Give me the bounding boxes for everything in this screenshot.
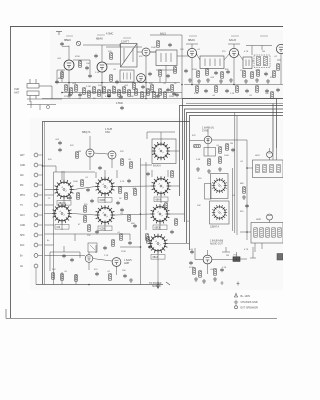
svg-text:68K: 68K bbox=[58, 78, 62, 80]
resistor R47 bbox=[243, 187, 246, 193]
resistor R13 bbox=[141, 92, 144, 98]
bus line 3 nested bbox=[185, 109, 284, 222]
wire grid cap V1 bbox=[62, 46, 69, 99]
wire V3 bbox=[137, 52, 156, 98]
ground G2 bbox=[197, 79, 201, 83]
resistor R28 bbox=[76, 152, 79, 158]
AGC vertical wire bbox=[150, 35, 182, 99]
capacitor C45 bbox=[62, 254, 66, 258]
svg-text:AC: AC bbox=[20, 265, 24, 268]
power arrow bbox=[157, 281, 171, 289]
sound IF box bbox=[120, 70, 134, 82]
resistor R35 bbox=[128, 215, 131, 221]
resistor R37 bbox=[146, 234, 149, 240]
svg-text:6BA6: 6BA6 bbox=[188, 38, 195, 42]
tube socket S6 bbox=[151, 176, 171, 196]
resistor R27 bbox=[256, 86, 259, 92]
resistor R4 bbox=[93, 87, 96, 93]
socket S4 label box bbox=[98, 226, 112, 231]
svg-text:CHASSIS GND: CHASSIS GND bbox=[241, 301, 258, 304]
ground G9 bbox=[129, 278, 133, 282]
hatched coil D2d bbox=[272, 228, 275, 237]
wire V7 cathode bbox=[277, 54, 281, 85]
capacitor C50 bbox=[85, 66, 89, 70]
resistor R72 bbox=[157, 41, 160, 47]
deflection block 1 bbox=[253, 160, 284, 178]
resistor R52 bbox=[70, 88, 73, 94]
resistor R19 bbox=[221, 72, 224, 78]
resistor R38 bbox=[52, 273, 55, 279]
bus line right drop A bbox=[272, 104, 274, 153]
wire into block1 bbox=[247, 148, 277, 168]
wire after volume bbox=[237, 252, 248, 259]
IF transformer T3 bbox=[200, 56, 224, 69]
svg-text:100K: 100K bbox=[73, 181, 78, 183]
svg-text:HOR: HOR bbox=[255, 155, 260, 157]
resistor R17 bbox=[197, 71, 200, 77]
border frame bottom bbox=[6, 309, 277, 319]
capacitor C16 bbox=[58, 148, 62, 152]
capacitor C39 bbox=[90, 199, 94, 203]
svg-text:22K: 22K bbox=[52, 269, 56, 271]
svg-text:FLD: FLD bbox=[20, 245, 25, 247]
terminal circle 1 bbox=[34, 153, 42, 157]
wire antenna to mixer bbox=[48, 86, 62, 99]
wire right column A bbox=[232, 168, 234, 231]
svg-text:AMP: AMP bbox=[124, 262, 130, 265]
svg-text:VERT: VERT bbox=[256, 219, 262, 221]
resistor R74 bbox=[271, 92, 274, 98]
small mark below right bbox=[221, 281, 240, 286]
resistor R73 bbox=[277, 64, 280, 70]
svg-text:1.5K: 1.5K bbox=[95, 72, 100, 74]
capacitor C33 bbox=[119, 95, 123, 99]
tube V8 bbox=[86, 149, 94, 157]
svg-text:68K: 68K bbox=[131, 223, 135, 225]
svg-text:6AU6: 6AU6 bbox=[229, 38, 236, 42]
ground G11 bbox=[207, 169, 211, 173]
svg-text:270K: 270K bbox=[121, 251, 126, 253]
ground G12 bbox=[218, 167, 222, 171]
tube socket S7 bbox=[150, 204, 170, 224]
terminal circle 10 bbox=[34, 243, 42, 247]
svg-text:22K: 22K bbox=[120, 151, 124, 153]
capacitor C38 bbox=[68, 196, 72, 200]
ground G6 bbox=[244, 79, 248, 83]
svg-text:ANT: ANT bbox=[20, 154, 25, 157]
svg-text:5%: 5% bbox=[240, 70, 243, 72]
chassis bottom bus bbox=[36, 284, 163, 286]
hatched coil D2e bbox=[278, 228, 281, 237]
resistor R51 bbox=[65, 85, 68, 91]
capacitor C47 bbox=[166, 74, 170, 78]
socket S8 label box bbox=[151, 255, 165, 260]
resistor R6 bbox=[103, 87, 106, 93]
capacitor C8 bbox=[226, 70, 230, 74]
border frame top bbox=[10, 26, 283, 28]
wire V5 plate bbox=[186, 44, 198, 84]
capacitor C10 bbox=[204, 89, 208, 93]
svg-text:6BE6: 6BE6 bbox=[64, 38, 71, 42]
capacitor C35 bbox=[156, 94, 160, 98]
resistor R70 bbox=[79, 61, 82, 67]
resistor R64 bbox=[171, 171, 174, 177]
value labels right body bbox=[186, 135, 262, 271]
svg-text:220K: 220K bbox=[169, 96, 174, 98]
capacitor C17 bbox=[98, 166, 102, 170]
svg-text:1M: 1M bbox=[78, 151, 81, 153]
discriminator transformer T4 bbox=[243, 57, 252, 69]
terminal circle 6 bbox=[34, 203, 42, 207]
svg-text:TO POWER: TO POWER bbox=[149, 283, 162, 285]
capacitor C21 bbox=[133, 224, 137, 228]
resistor R25 bbox=[215, 86, 218, 92]
resistor R50 bbox=[214, 269, 217, 275]
terminal circle 2 bbox=[34, 163, 42, 167]
tube V4 bbox=[137, 74, 146, 83]
box module small bbox=[204, 148, 216, 157]
svg-text:1M: 1M bbox=[262, 51, 265, 53]
trimmer lamp circle bbox=[76, 41, 80, 45]
resistor R15 bbox=[153, 92, 156, 98]
wire V6 bbox=[228, 44, 240, 84]
ground bus lower top strip bbox=[42, 99, 283, 104]
resistor R36 bbox=[120, 234, 123, 240]
svg-text:4.5MC: 4.5MC bbox=[116, 102, 123, 105]
tube V5 6BA6 bbox=[187, 48, 196, 57]
svg-text:AUX: AUX bbox=[20, 214, 25, 217]
dial box 2 bbox=[210, 201, 230, 224]
svg-text:10K: 10K bbox=[86, 63, 90, 65]
capacitor C18 bbox=[86, 188, 90, 192]
svg-text:EXT SPEAKER: EXT SPEAKER bbox=[241, 306, 259, 309]
resistor R42 bbox=[194, 145, 200, 148]
svg-text:270K: 270K bbox=[64, 96, 69, 98]
svg-text:47K: 47K bbox=[139, 56, 143, 58]
bus line 2 nested bbox=[180, 106, 284, 197]
tube socket S4 bbox=[95, 205, 115, 225]
capacitor C31 bbox=[78, 93, 82, 97]
resistor R1 bbox=[61, 72, 64, 78]
scan tone top strip bbox=[50, 30, 283, 104]
svg-text:10K: 10K bbox=[265, 93, 269, 95]
svg-text:100K: 100K bbox=[151, 47, 156, 49]
resistor R34 bbox=[134, 189, 137, 195]
resistor R65 bbox=[165, 203, 168, 209]
svg-text:12K: 12K bbox=[87, 235, 91, 237]
hatched coil D1a bbox=[256, 164, 259, 172]
terminal labels bbox=[20, 154, 25, 268]
capacitor C26 bbox=[245, 204, 249, 208]
resistor R14 bbox=[147, 89, 150, 95]
svg-text:B+ 140V: B+ 140V bbox=[241, 295, 251, 298]
svg-text:1.5K: 1.5K bbox=[104, 255, 109, 257]
svg-text:100K: 100K bbox=[224, 155, 229, 157]
svg-text:2.2M: 2.2M bbox=[86, 86, 91, 88]
resistor R33 bbox=[84, 216, 87, 222]
resistor R18 bbox=[206, 69, 209, 75]
capacitor C19 bbox=[127, 179, 131, 183]
capacitor C32 bbox=[107, 94, 111, 98]
resistor R5 bbox=[98, 90, 101, 96]
legend symbol 3 bbox=[235, 305, 238, 309]
svg-text:47K: 47K bbox=[270, 77, 274, 79]
wire V13 bbox=[195, 248, 233, 274]
tube socket S1 bbox=[54, 180, 74, 200]
terminal circle 3 bbox=[34, 173, 42, 177]
wire under T2 box bbox=[156, 66, 177, 83]
value labels top strip row2 bbox=[58, 69, 274, 88]
resistor R8 bbox=[113, 87, 116, 93]
resistor R9 bbox=[118, 90, 121, 96]
terminal circle 9 bbox=[34, 233, 42, 237]
svg-text:4.7K: 4.7K bbox=[120, 181, 125, 183]
resistor R54 bbox=[133, 83, 136, 89]
capacitor C1 bbox=[60, 42, 64, 46]
B+ bus top strip bbox=[184, 84, 283, 86]
capacitor C44 bbox=[170, 230, 174, 234]
bottom tube V11 bbox=[112, 258, 121, 267]
resistor R69 bbox=[147, 237, 150, 243]
legend symbol 2 bbox=[234, 300, 238, 304]
capacitor C34 bbox=[141, 85, 145, 89]
capacitor C14 bbox=[120, 106, 124, 110]
wire top interconnect 2 bbox=[150, 52, 254, 61]
wire top interconnect 1 bbox=[106, 44, 142, 48]
capacitor C23 bbox=[95, 272, 99, 276]
socket S2 label box bbox=[55, 225, 69, 230]
wire bottom right extras bbox=[222, 247, 256, 258]
capacitor C27 bbox=[190, 250, 194, 254]
svg-text:12K: 12K bbox=[156, 98, 160, 100]
resistor R29 bbox=[121, 159, 124, 165]
terminal circle 5 bbox=[34, 193, 42, 197]
svg-text:PHO: PHO bbox=[20, 195, 25, 197]
small box bottom left bbox=[88, 243, 97, 252]
resistor R31 bbox=[81, 180, 84, 186]
resistor R12 bbox=[135, 89, 138, 95]
socket S1 label box bbox=[57, 201, 71, 206]
main chassis wire top bbox=[43, 122, 190, 285]
wire plate links top bbox=[57, 60, 120, 82]
bus line 5 nested bbox=[190, 116, 284, 251]
svg-text:150K: 150K bbox=[192, 69, 197, 71]
resistor R55 bbox=[151, 85, 154, 91]
svg-text:470K: 470K bbox=[75, 56, 80, 58]
resistor R67 bbox=[159, 70, 162, 76]
capacitor C51 bbox=[115, 80, 119, 84]
resistor R26 bbox=[236, 86, 239, 92]
resistor R20 bbox=[243, 71, 246, 77]
ground G8 bbox=[266, 79, 270, 83]
svg-text:FM: FM bbox=[20, 185, 23, 187]
small marks top labels bbox=[66, 35, 268, 38]
svg-text:470K: 470K bbox=[189, 267, 194, 269]
wire right column B bbox=[234, 113, 236, 234]
main chassis wire left double bbox=[44, 122, 46, 285]
value labels top strip row3 bbox=[64, 93, 269, 100]
resistor R3 bbox=[83, 88, 86, 94]
svg-text:5.6K: 5.6K bbox=[196, 159, 201, 161]
tube V9 bbox=[108, 151, 116, 159]
capacitor C43 bbox=[146, 172, 150, 176]
resistor R53 bbox=[88, 91, 91, 97]
resistor R61 bbox=[125, 193, 128, 199]
hatched coil D2c bbox=[266, 228, 269, 237]
resistor R2 bbox=[75, 85, 78, 91]
capacitor C25 bbox=[231, 148, 235, 152]
tube V6 6AU6 bbox=[229, 48, 238, 57]
wire socket links bbox=[62, 170, 190, 281]
capacitor C2 bbox=[55, 80, 59, 84]
resistor R58 bbox=[110, 53, 113, 59]
bus line 4 nested bbox=[187, 113, 284, 244]
deflection block 2 bbox=[251, 223, 283, 244]
svg-text:82K: 82K bbox=[225, 69, 229, 71]
resistor R16 bbox=[159, 89, 162, 95]
transformer T1 with diagonal bbox=[121, 44, 138, 68]
terminal circle 7 bbox=[34, 213, 42, 217]
resistor R60 bbox=[119, 187, 122, 193]
dial socket D2 bbox=[212, 205, 227, 220]
tube socket S2 bbox=[52, 204, 72, 224]
ground G15 bbox=[202, 279, 206, 283]
wire left col extra bbox=[54, 172, 77, 285]
svg-text:1M: 1M bbox=[226, 255, 229, 257]
svg-text:AM: AM bbox=[20, 174, 24, 177]
dashed module box bbox=[254, 55, 270, 68]
capacitor C37 bbox=[94, 54, 98, 58]
legend symbol 1 bbox=[234, 293, 237, 297]
resistor R66 bbox=[175, 219, 178, 225]
socket S3 label box bbox=[98, 198, 112, 203]
capacitor C5 bbox=[172, 92, 176, 96]
scan tone main body bbox=[30, 118, 283, 290]
resistor R57 bbox=[171, 85, 174, 91]
svg-text:4.7K: 4.7K bbox=[244, 51, 249, 53]
capacitor C53 bbox=[276, 88, 280, 92]
wire right column D bbox=[246, 140, 248, 240]
ground G4 bbox=[219, 79, 223, 83]
svg-text:6BQ7A: 6BQ7A bbox=[82, 130, 91, 134]
pilot lamp cluster bbox=[27, 101, 56, 110]
ground G13 bbox=[242, 195, 246, 199]
ground G1 bbox=[188, 78, 192, 82]
svg-text:56K: 56K bbox=[130, 96, 134, 98]
tube socket S8 bbox=[148, 234, 168, 254]
wire extras main body bbox=[45, 165, 153, 271]
capacitor C3 bbox=[88, 74, 92, 78]
resistor R63 bbox=[112, 240, 115, 246]
border frame left bbox=[10, 27, 12, 319]
resistor R22 bbox=[257, 70, 260, 76]
tube V1 6BE6 converter bbox=[64, 60, 74, 70]
resistor R41 bbox=[109, 274, 112, 280]
hatched coil D1b bbox=[263, 164, 266, 172]
resistor R10 bbox=[123, 87, 126, 93]
svg-text:VHF: VHF bbox=[14, 87, 20, 91]
capacitor C6 bbox=[184, 69, 188, 73]
svg-text:4.5MC: 4.5MC bbox=[106, 33, 114, 36]
wire V8 V9 bbox=[90, 136, 112, 170]
small tube above deflection block bbox=[267, 148, 273, 158]
IF transformer T2 bbox=[156, 50, 177, 66]
dial socket D1 bbox=[212, 178, 227, 193]
capacitor C20 bbox=[120, 208, 124, 212]
capacitor C46 bbox=[70, 258, 74, 262]
hatched coil B bbox=[264, 56, 268, 65]
resistor R39 bbox=[61, 274, 64, 280]
svg-text:10K: 10K bbox=[137, 81, 141, 83]
svg-text:33K: 33K bbox=[149, 83, 153, 85]
capacitor C22 bbox=[128, 241, 132, 245]
capacitor C13 bbox=[265, 89, 269, 93]
resistor R46 bbox=[219, 157, 222, 163]
svg-text:2.2K: 2.2K bbox=[222, 267, 227, 269]
capacitor C28 bbox=[189, 261, 193, 265]
value labels top strip row1 bbox=[57, 47, 278, 74]
bus line right drop B bbox=[276, 99, 278, 149]
svg-text:GND: GND bbox=[20, 165, 25, 167]
svg-text:VOL: VOL bbox=[233, 255, 238, 257]
svg-text:6BA6: 6BA6 bbox=[96, 37, 103, 41]
wire sockets to bus column bbox=[147, 132, 180, 177]
svg-text:6.8K: 6.8K bbox=[194, 93, 199, 95]
resistor R62 bbox=[88, 225, 91, 231]
capacitor C30 bbox=[68, 93, 72, 97]
svg-text:10K: 10K bbox=[122, 270, 126, 272]
socket S6 label box bbox=[154, 197, 168, 202]
ground G5 bbox=[229, 78, 233, 82]
hatched coil D1c bbox=[270, 164, 273, 172]
svg-text:GND: GND bbox=[20, 225, 25, 227]
capacitor C42 bbox=[103, 246, 107, 250]
dial box 1 bbox=[211, 174, 229, 199]
capacitor C52 bbox=[168, 43, 172, 47]
resistor R32 bbox=[84, 206, 87, 212]
svg-text:47K: 47K bbox=[70, 145, 74, 147]
tube V13 bbox=[203, 255, 212, 264]
svg-text:1.2K: 1.2K bbox=[230, 93, 235, 95]
resistor R11 bbox=[128, 90, 131, 96]
antenna terminal block VHF bbox=[27, 79, 52, 102]
hatched coil A bbox=[257, 56, 261, 65]
svg-text:AUDIO OUT: AUDIO OUT bbox=[210, 243, 223, 246]
bus line 1 nested bbox=[183, 99, 284, 161]
resistor R30 bbox=[130, 162, 133, 168]
terminal circle 8 bbox=[34, 223, 42, 227]
resistor R56 bbox=[164, 92, 167, 98]
value labels main body left bbox=[47, 139, 137, 273]
resistor R59 bbox=[77, 193, 80, 199]
svg-text:47K: 47K bbox=[192, 135, 196, 137]
capacitor C36 bbox=[175, 93, 179, 97]
volume control blob bbox=[233, 257, 240, 262]
wire heater row bbox=[62, 92, 182, 94]
resistor R48 bbox=[193, 268, 196, 274]
svg-text:4.7K: 4.7K bbox=[244, 249, 249, 251]
ground G3 bbox=[206, 78, 210, 82]
capacitor C7 bbox=[214, 71, 218, 75]
ground G10 bbox=[196, 167, 200, 171]
tube socket S5 bbox=[152, 142, 171, 161]
tube socket S3 bbox=[95, 177, 115, 197]
svg-text:10K: 10K bbox=[197, 205, 201, 207]
tube V3 12AT7 bbox=[142, 48, 150, 56]
IF can box around S5 bbox=[152, 139, 176, 164]
capacitor C9 bbox=[264, 72, 268, 76]
svg-text:12K: 12K bbox=[180, 49, 184, 51]
